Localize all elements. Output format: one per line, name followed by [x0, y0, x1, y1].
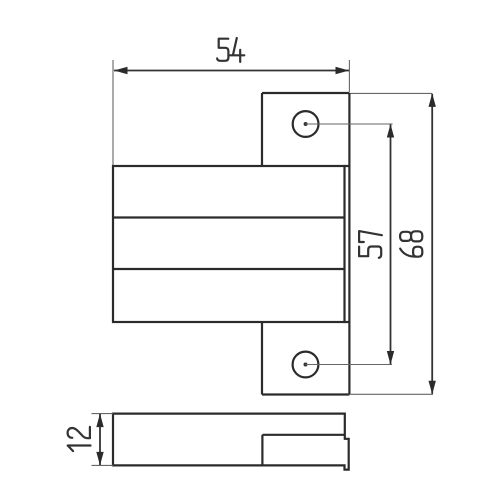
flange right edge — [348, 93, 350, 395]
side view outline with right lip — [113, 414, 349, 470]
dimension line — [390, 125, 392, 365]
body divider line upper — [113, 216, 345, 218]
plate body rectangle — [113, 166, 345, 322]
extension line left — [112, 60, 114, 165]
arrow down — [96, 452, 103, 466]
arrow up — [96, 414, 103, 428]
extension line bottom — [351, 393, 434, 395]
label 57 — [359, 231, 382, 258]
dimension line — [99, 414, 101, 465]
bottom tab left edge — [261, 322, 263, 395]
hole top — [293, 111, 319, 137]
label 68 — [400, 231, 422, 256]
body top edge extended under tab — [345, 165, 350, 167]
body divider line lower — [113, 268, 345, 270]
arrow right — [336, 67, 350, 74]
arrow left — [114, 67, 128, 74]
hole centre line bottom — [306, 364, 393, 366]
flange left edge — [261, 435, 263, 466]
arrow up — [429, 93, 436, 107]
hole centre line top — [306, 123, 393, 125]
hole center dots — [304, 122, 308, 126]
label 54 — [217, 38, 244, 62]
dimension line — [431, 94, 433, 394]
body bottom edge extended under tab — [345, 321, 350, 323]
arrow up — [387, 124, 394, 138]
label 12 — [68, 427, 91, 451]
bottom tab bottom edge — [262, 393, 349, 395]
extension line right — [348, 60, 350, 92]
hole bottom — [293, 352, 319, 378]
extension line top — [351, 92, 433, 94]
top tab top edge — [262, 92, 349, 94]
arrow down — [429, 381, 436, 395]
extension line top — [92, 413, 114, 415]
extension line bottom — [92, 464, 114, 466]
dimension line — [114, 70, 349, 72]
flange fold line — [262, 434, 344, 436]
arrow down — [387, 351, 394, 365]
top tab left edge — [261, 93, 263, 166]
